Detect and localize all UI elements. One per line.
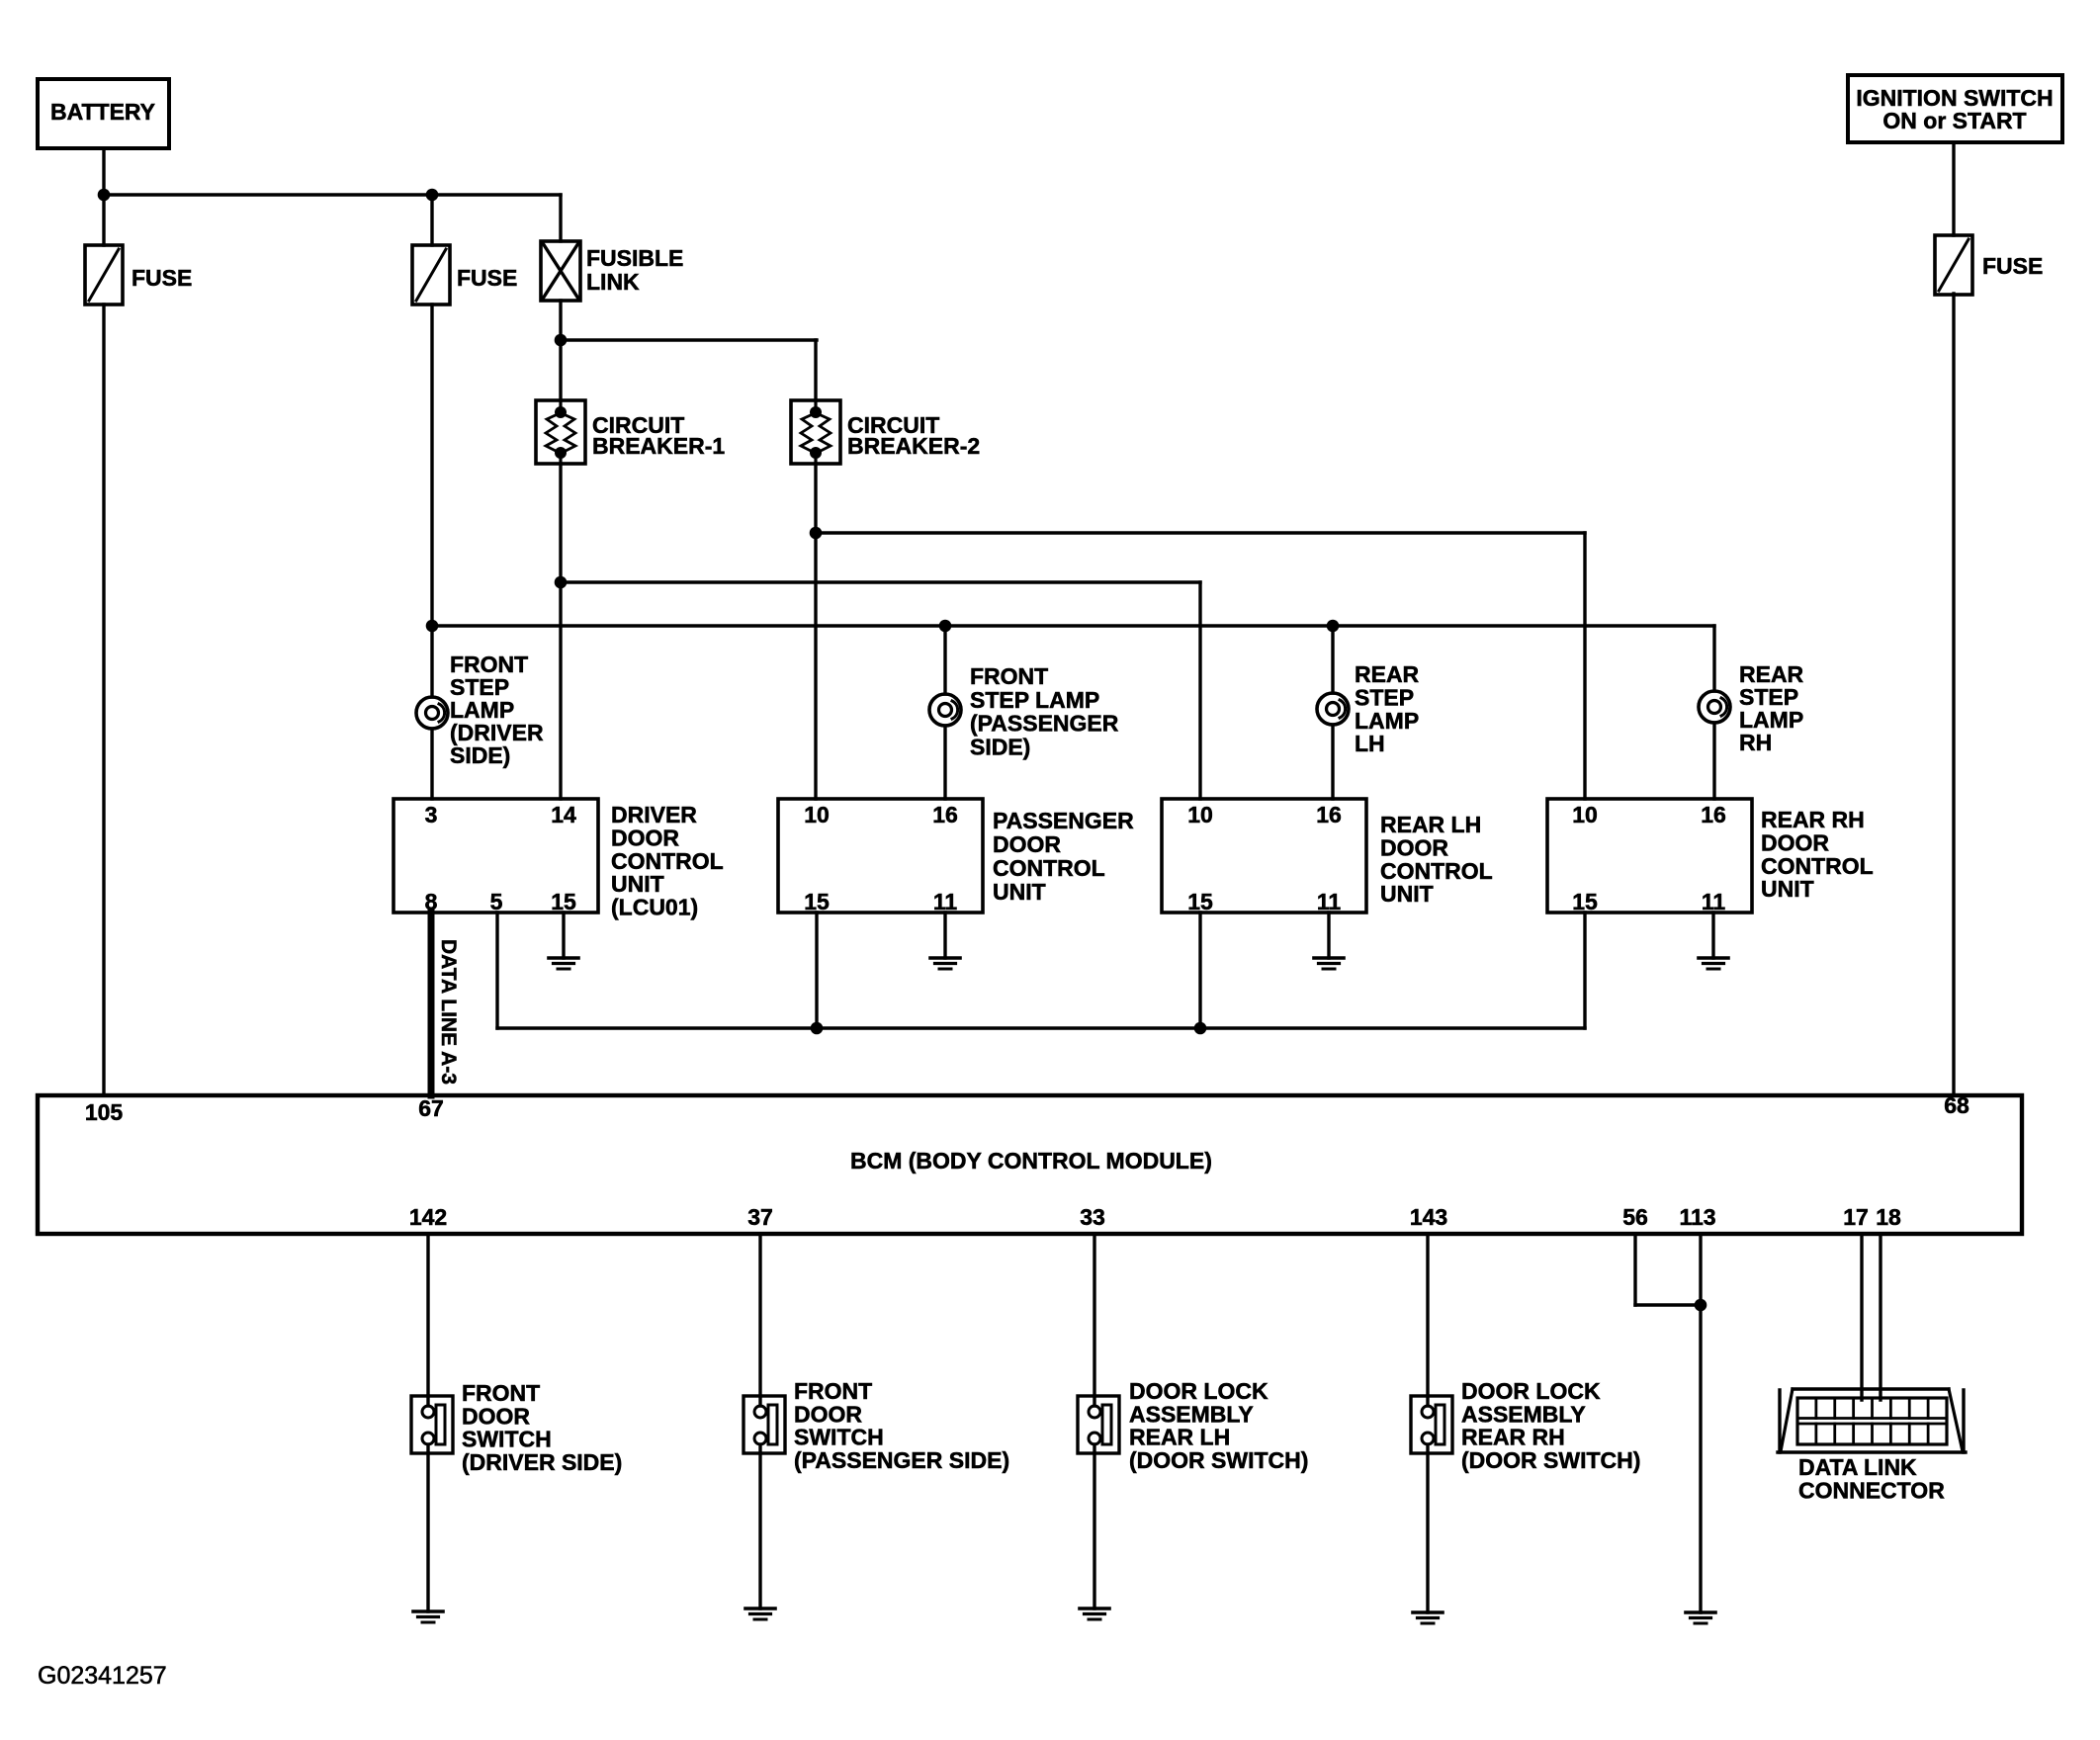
svg-text:STEP LAMP: STEP LAMP	[970, 687, 1099, 713]
svg-text:ON or START: ON or START	[1882, 108, 2026, 133]
svg-text:14: 14	[551, 802, 576, 827]
svg-text:15: 15	[1187, 889, 1213, 914]
svg-text:15: 15	[1572, 889, 1598, 914]
svg-text:DOOR: DOOR	[1761, 829, 1829, 855]
svg-text:DOOR: DOOR	[794, 1401, 862, 1427]
svg-text:142: 142	[409, 1204, 447, 1230]
svg-text:BREAKER-1: BREAKER-1	[592, 433, 725, 459]
svg-text:DATA LINK: DATA LINK	[1798, 1454, 1917, 1480]
svg-text:STEP: STEP	[1355, 684, 1414, 710]
svg-text:REAR LH: REAR LH	[1380, 812, 1481, 837]
svg-text:DOOR: DOOR	[1380, 834, 1448, 860]
svg-text:16: 16	[1316, 802, 1342, 827]
svg-text:UNIT: UNIT	[1380, 881, 1434, 907]
svg-text:FUSE: FUSE	[457, 265, 517, 291]
svg-text:16: 16	[932, 802, 958, 827]
svg-text:37: 37	[747, 1204, 773, 1230]
svg-text:BATTERY: BATTERY	[50, 99, 155, 125]
svg-text:105: 105	[85, 1099, 124, 1125]
svg-text:18: 18	[1876, 1204, 1901, 1230]
svg-text:DOOR: DOOR	[462, 1403, 530, 1429]
svg-text:REAR RH: REAR RH	[1461, 1425, 1565, 1450]
svg-text:REAR RH: REAR RH	[1761, 807, 1865, 832]
svg-text:DOOR LOCK: DOOR LOCK	[1461, 1378, 1601, 1404]
svg-text:33: 33	[1080, 1204, 1105, 1230]
svg-text:(PASSENGER SIDE): (PASSENGER SIDE)	[794, 1447, 1009, 1473]
svg-text:(LCU01): (LCU01)	[611, 895, 698, 920]
svg-text:DOOR: DOOR	[611, 825, 679, 850]
svg-text:FRONT: FRONT	[462, 1380, 540, 1406]
svg-text:REAR LH: REAR LH	[1129, 1425, 1230, 1450]
svg-text:RH: RH	[1739, 730, 1772, 755]
svg-text:3: 3	[425, 802, 438, 827]
svg-text:LINK: LINK	[586, 269, 640, 295]
svg-text:DRIVER: DRIVER	[611, 802, 697, 827]
svg-text:56: 56	[1622, 1204, 1648, 1230]
svg-text:(PASSENGER: (PASSENGER	[970, 711, 1119, 737]
svg-text:SIDE): SIDE)	[450, 742, 510, 768]
svg-text:11: 11	[1317, 889, 1342, 914]
svg-text:CONNECTOR: CONNECTOR	[1798, 1477, 1945, 1503]
svg-text:10: 10	[1187, 802, 1213, 827]
svg-text:SWITCH: SWITCH	[794, 1425, 884, 1450]
svg-text:CONTROL: CONTROL	[611, 848, 724, 874]
svg-text:LAMP: LAMP	[1355, 708, 1419, 734]
svg-text:10: 10	[1572, 802, 1598, 827]
svg-text:LH: LH	[1355, 731, 1385, 756]
svg-text:(DOOR SWITCH): (DOOR SWITCH)	[1129, 1447, 1308, 1473]
svg-text:SWITCH: SWITCH	[462, 1427, 552, 1452]
svg-text:15: 15	[804, 889, 830, 914]
svg-text:DATA LINE A-3: DATA LINE A-3	[437, 939, 460, 1085]
svg-text:DOOR: DOOR	[993, 831, 1061, 857]
svg-text:ASSEMBLY: ASSEMBLY	[1461, 1401, 1586, 1427]
svg-text:BCM (BODY CONTROL MODULE): BCM (BODY CONTROL MODULE)	[850, 1148, 1212, 1174]
svg-text:REAR: REAR	[1355, 661, 1420, 687]
svg-text:ASSEMBLY: ASSEMBLY	[1129, 1401, 1254, 1427]
svg-text:(DRIVER SIDE): (DRIVER SIDE)	[462, 1449, 622, 1475]
svg-text:FUSE: FUSE	[1982, 253, 2043, 279]
svg-text:DOOR LOCK: DOOR LOCK	[1129, 1378, 1269, 1404]
svg-text:FRONT: FRONT	[794, 1378, 872, 1404]
svg-text:15: 15	[551, 889, 576, 914]
svg-text:5: 5	[490, 889, 503, 914]
svg-text:SIDE): SIDE)	[970, 734, 1030, 759]
svg-text:UNIT: UNIT	[1761, 876, 1814, 902]
svg-text:16: 16	[1701, 802, 1726, 827]
svg-text:FUSE: FUSE	[131, 265, 192, 291]
svg-text:67: 67	[418, 1095, 444, 1121]
svg-text:PASSENGER: PASSENGER	[993, 808, 1134, 833]
svg-text:68: 68	[1944, 1092, 1969, 1118]
svg-text:BREAKER-2: BREAKER-2	[847, 433, 980, 459]
svg-text:G02341257: G02341257	[38, 1662, 167, 1690]
svg-text:CONTROL: CONTROL	[1380, 858, 1493, 884]
svg-text:FUSIBLE: FUSIBLE	[586, 245, 683, 271]
svg-text:CONTROL: CONTROL	[1761, 853, 1874, 879]
svg-text:10: 10	[804, 802, 830, 827]
svg-text:17: 17	[1843, 1204, 1869, 1230]
svg-text:11: 11	[933, 889, 958, 914]
svg-text:FRONT: FRONT	[970, 663, 1048, 689]
svg-text:UNIT: UNIT	[611, 871, 664, 897]
svg-text:UNIT: UNIT	[993, 879, 1046, 905]
svg-text:CONTROL: CONTROL	[993, 855, 1105, 881]
svg-text:(DOOR SWITCH): (DOOR SWITCH)	[1461, 1447, 1640, 1473]
svg-text:11: 11	[1702, 889, 1726, 914]
svg-text:113: 113	[1679, 1204, 1715, 1230]
svg-text:143: 143	[1410, 1204, 1447, 1230]
